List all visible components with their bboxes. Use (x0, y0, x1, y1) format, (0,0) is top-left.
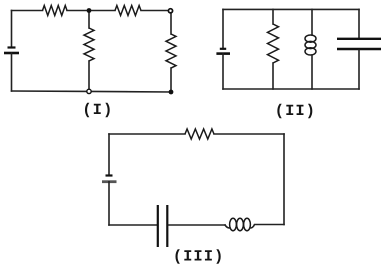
svg-text:(I): (I) (82, 101, 113, 119)
svg-text:(II): (II) (275, 102, 316, 120)
svg-text:(III): (III) (173, 248, 225, 264)
